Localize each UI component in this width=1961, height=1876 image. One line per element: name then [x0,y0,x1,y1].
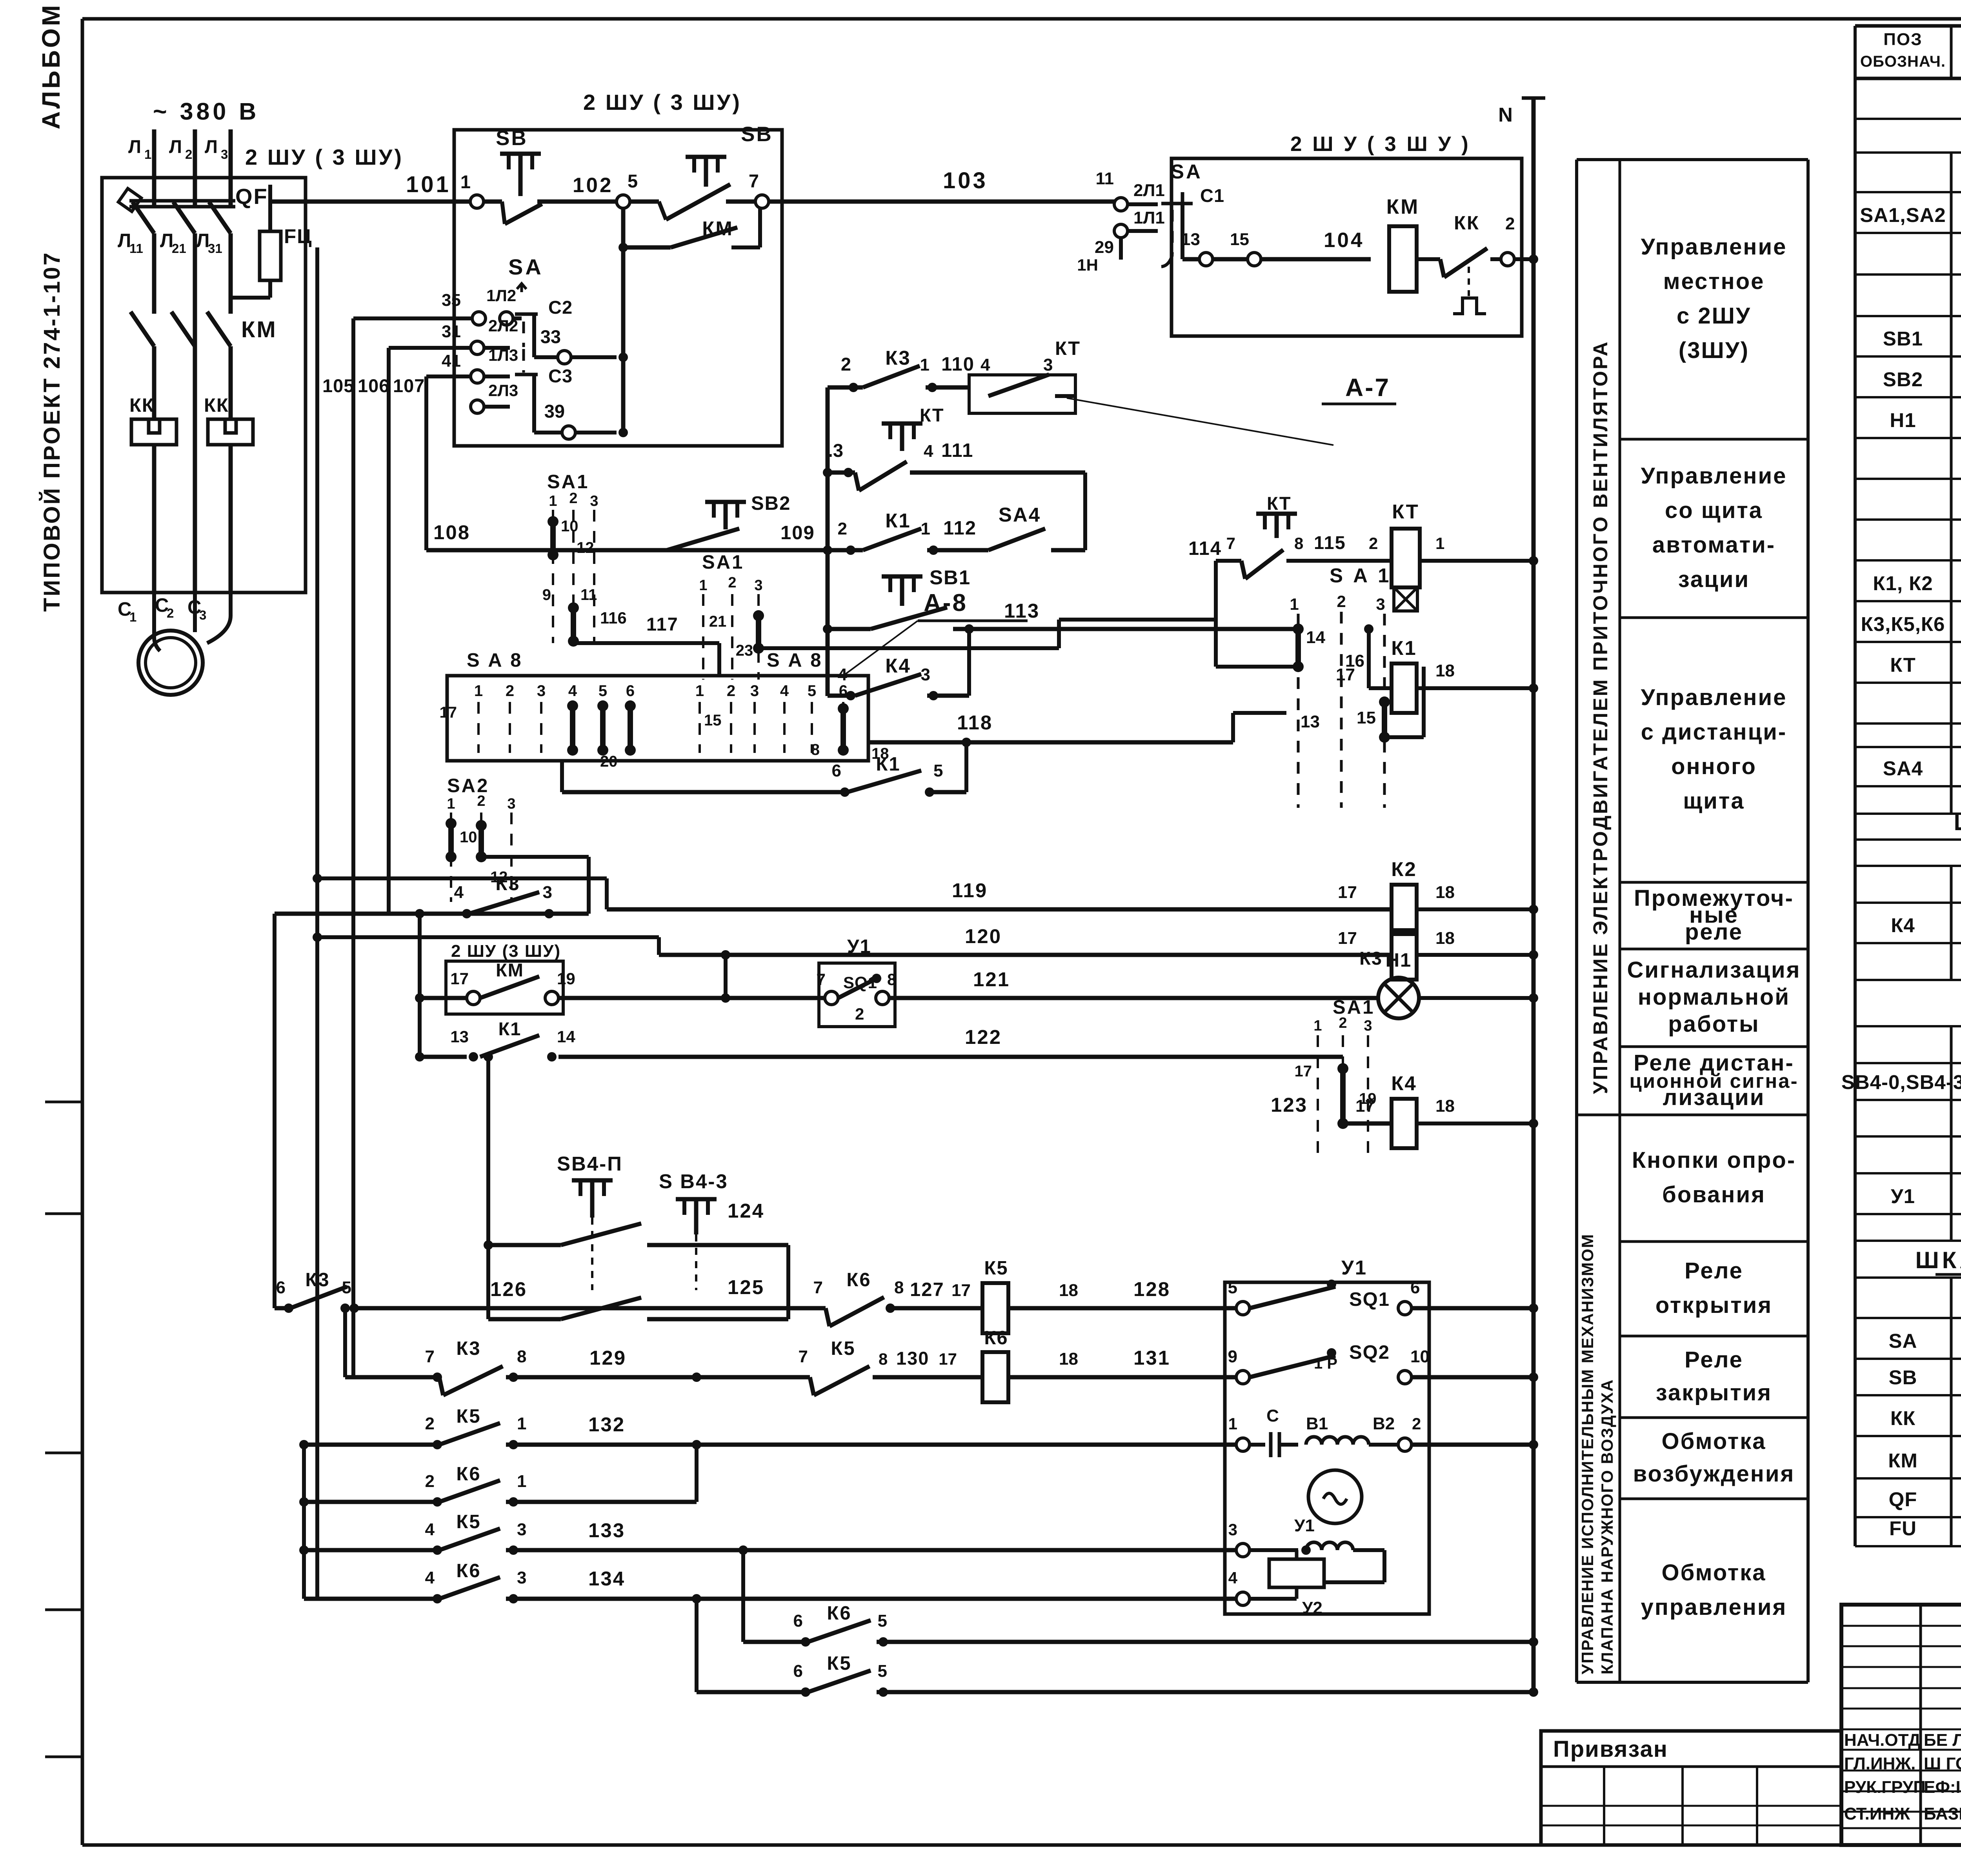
svg-text:2: 2 [1412,1414,1421,1433]
rung 129 130 131 [345,1338,980,1395]
contact K1 aux rung [562,742,966,797]
svg-text:Н1: Н1 [1890,409,1916,431]
svg-text:SB: SB [1889,1366,1917,1389]
svg-text:лизации: лизации [1663,1085,1765,1110]
wire 103 junction vertical [618,208,628,437]
table row KM row [1888,1446,1961,1472]
svg-text:29: 29 [1095,238,1114,257]
svg-text:31: 31 [442,322,461,341]
svg-text:134: 134 [588,1567,625,1590]
wire 103 [769,168,1121,202]
svg-text:121: 121 [973,968,1010,991]
function cell Кнопки опро- [1620,1147,1808,1242]
svg-text:1Н: 1Н [1077,256,1098,274]
svg-text:2Л1: 2Л1 [1133,181,1165,200]
svg-text:К6: К6 [984,1327,1008,1349]
svg-text:5: 5 [1228,1278,1237,1297]
svg-text:1: 1 [1290,595,1299,613]
svg-text:~ 380 В: ~ 380 В [153,98,259,125]
svg-text:А-7: А-7 [1345,373,1390,402]
svg-text:1: 1 [921,519,930,538]
svg-text:SА1: SА1 [702,552,744,573]
wire 101 [270,172,477,202]
svg-text:17: 17 [951,1281,971,1300]
svg-text:открытия: открытия [1655,1292,1772,1318]
svg-text:FЦ: FЦ [284,225,312,247]
svg-text:КТ: КТ [920,405,944,425]
svg-text:18: 18 [1059,1281,1078,1300]
svg-text:23: 23 [736,642,753,659]
phase stub L3 [205,129,231,187]
table row SB2 [1883,365,1961,391]
wire 114 jog [1188,538,1298,667]
svg-text:3: 3 [507,796,515,812]
svg-text:1: 1 [699,577,707,594]
switch SA4 [988,504,1085,550]
svg-text:закрытия: закрытия [1656,1380,1772,1405]
svg-text:НАЧ.ОТД: НАЧ.ОТД [1844,1731,1921,1750]
svg-text:У2: У2 [1302,1598,1322,1618]
wire 118 [868,711,1286,747]
svg-text:31: 31 [208,241,222,256]
svg-text:КТ: КТ [1267,493,1292,514]
svg-text:21: 21 [709,613,727,630]
svg-text:13: 13 [450,1027,469,1046]
svg-text:SB2: SB2 [1883,368,1923,391]
reference line A-7 [1067,373,1396,445]
svg-text:с дистанци-: с дистанци- [1641,719,1787,745]
svg-text:Обмотка: Обмотка [1662,1429,1766,1454]
rung 110 contact K3 [828,347,975,392]
svg-text:2 ШУ ( 3 ШУ): 2 ШУ ( 3 ШУ) [245,145,404,169]
svg-text:6: 6 [793,1661,803,1681]
svg-text:К1: К1 [1391,637,1417,659]
svg-text:4: 4 [568,682,577,700]
svg-text:1 Р: 1 Р [1314,1355,1337,1372]
svg-text:местное: местное [1663,269,1765,294]
svg-text:ЩИТ ДИСТАНЦИОННОГО УПРАВЛЕНИЯ.: ЩИТ ДИСТАНЦИОННОГО УПРАВЛЕНИЯ. [1954,809,1961,835]
svg-text:SA4: SA4 [1883,757,1923,780]
svg-text:Л: Л [128,136,141,157]
svg-text:17: 17 [939,1350,957,1368]
svg-text:1: 1 [695,682,704,700]
contact K1 on 112 [828,509,988,555]
svg-text:Л: Л [205,136,218,157]
svg-text:33: 33 [540,326,561,347]
svg-text:127: 127 [910,1279,944,1300]
svg-text:1: 1 [1228,1414,1237,1433]
neutral bus N [1498,98,1545,1692]
rung 108 109 112 [426,493,828,550]
svg-text:5: 5 [878,1661,887,1681]
selector SA in box2 [1161,160,1224,267]
phase labels L11 L21 L31 [118,230,222,256]
table header text [1860,30,1961,70]
svg-text:КМ: КМ [496,960,524,980]
svg-text:3: 3 [921,665,930,684]
svg-text:FU: FU [1889,1517,1917,1540]
privyazan box [1541,1731,1841,1845]
svg-text:3: 3 [754,577,762,594]
table row SA4 [1883,754,1961,780]
svg-text:35: 35 [442,291,461,310]
rotated strip text lower [1578,1233,1616,1674]
svg-text:К5: К5 [456,1511,481,1532]
svg-text:109: 109 [780,522,815,544]
svg-text:1: 1 [549,493,557,509]
svg-text:4: 4 [425,1568,435,1587]
table row H1 [1890,406,1961,432]
svg-text:К6: К6 [456,1463,481,1485]
selector SA1 left block [542,471,627,647]
svg-text:2: 2 [425,1472,435,1491]
svg-text:15: 15 [1230,230,1249,249]
svg-text:1: 1 [474,682,483,700]
svg-text:SВ2: SВ2 [751,493,791,514]
svg-text:2: 2 [838,519,847,538]
svg-text:щита: щита [1683,788,1745,814]
svg-text:122: 122 [965,1026,1002,1048]
table row FU row [1889,1514,1961,1540]
svg-text:7: 7 [425,1347,435,1366]
svg-text:Управление: Управление [1641,234,1787,260]
svg-text:1Л3: 1Л3 [488,346,518,364]
svg-text:К1: К1 [876,754,900,775]
svg-text:SВ1: SВ1 [930,566,971,589]
svg-text:с 2ШУ: с 2ШУ [1677,303,1751,329]
reference box A7 with KT contact [969,338,1081,413]
rung 134 K6 contact [304,1560,1243,1603]
function cell Управление [1620,234,1808,439]
svg-text:2: 2 [1505,214,1515,233]
svg-text:S А 8: S А 8 [767,650,823,671]
relay coil K1 [1336,624,1538,713]
table row SB40SB43 [1841,1069,1961,1094]
wire SA2 to rung [481,857,589,914]
function cell Сигнализация [1620,957,1808,1047]
contact K1 13 14 wire 122 [420,1018,1343,1062]
svg-text:4: 4 [425,1520,435,1539]
svg-text:реле: реле [1685,919,1743,945]
svg-text:3: 3 [537,682,546,700]
table row K1K2 [1873,569,1961,595]
svg-text:К2: К2 [1391,858,1417,880]
SA row 2L3 [471,381,518,413]
actuator motor symbol [1308,1470,1362,1523]
svg-text:6: 6 [832,761,841,780]
svg-text:106: 106 [358,375,389,396]
svg-text:3: 3 [517,1568,526,1587]
svg-text:2: 2 [1339,1015,1347,1031]
svg-text:117: 117 [646,614,679,634]
svg-text:17: 17 [1338,929,1357,948]
svg-text:18: 18 [1435,929,1455,948]
svg-text:СТ.ИНЖ: СТ.ИНЖ [1844,1804,1910,1823]
svg-text:11: 11 [580,586,597,604]
svg-text:К3: К3 [456,1338,481,1359]
SA row 1L3 C3 [426,346,617,439]
svg-text:3: 3 [1228,1520,1237,1539]
contact K4 parallel [828,624,974,700]
svg-text:18: 18 [1059,1349,1078,1369]
svg-text:5: 5 [628,171,638,191]
svg-text:124: 124 [728,1200,764,1222]
svg-text:2 ШУ (3 ШУ): 2 ШУ (3 ШУ) [451,942,561,961]
svg-text:ОБОЗНАЧ.: ОБОЗНАЧ. [1860,53,1946,70]
svg-text:SА1: SА1 [547,471,589,493]
button SB start [460,127,617,224]
svg-text:12: 12 [577,539,594,556]
svg-text:115: 115 [1314,532,1346,553]
buttons SB4 rungs 124 125 [484,1052,788,1319]
contactor coil KM [1386,195,1440,292]
table row K4 [1891,911,1961,937]
svg-text:КТ: КТ [1055,338,1081,359]
svg-text:SA: SA [1889,1330,1917,1352]
svg-text:К4: К4 [885,654,911,677]
table row U1 [1891,1183,1961,1208]
svg-text:2: 2 [727,682,735,700]
svg-text:К5: К5 [456,1406,481,1427]
svg-text:108: 108 [433,521,470,544]
svg-text:зации: зации [1678,567,1750,592]
svg-text:В1: В1 [1306,1414,1328,1433]
svg-text:К6: К6 [846,1269,871,1291]
svg-text:К6: К6 [456,1560,481,1582]
svg-text:SА: SА [1171,160,1202,183]
svg-text:102: 102 [573,174,613,197]
svg-text:3: 3 [221,147,228,162]
svg-text:К1: К1 [498,1018,522,1039]
svg-text:нормальной: нормальной [1638,984,1790,1010]
svg-text:9: 9 [1228,1347,1237,1366]
svg-text:КМ: КМ [241,317,277,342]
svg-text:104: 104 [1324,229,1364,252]
svg-text:18: 18 [1435,1096,1455,1116]
SA row 2L2 [389,316,518,354]
svg-text:8: 8 [811,741,820,758]
svg-text:8: 8 [879,1350,888,1368]
feeder 126 vertical [273,914,277,1308]
svg-text:15: 15 [704,712,722,729]
svg-text:17: 17 [1355,1096,1375,1116]
svg-text:8: 8 [887,970,896,989]
svg-text:128: 128 [1133,1278,1170,1300]
svg-text:2: 2 [185,147,192,162]
svg-text:А-8: А-8 [924,589,968,616]
svg-text:2: 2 [728,574,736,591]
terminal 2 to N [1501,253,1538,266]
svg-text:КК: КК [204,395,229,416]
svg-text:КМ: КМ [1386,195,1420,218]
svg-text:К5: К5 [831,1338,855,1359]
svg-text:113: 113 [1004,600,1040,622]
wire 104 [1181,229,1371,266]
svg-text:У1: У1 [1341,1256,1367,1279]
selector SA rows in box1 [508,254,544,279]
thermal elements KK [129,314,253,593]
svg-text:работы: работы [1668,1011,1759,1037]
feeder verticals 105 106 107 [317,247,426,1599]
svg-text:7: 7 [817,970,826,989]
svg-text:4: 4 [780,682,789,700]
table section title shchit distancionnogo upravleniya [1954,809,1961,836]
rung K5 6 5 bottom [697,1599,1538,1697]
svg-text:2: 2 [425,1414,435,1433]
svg-text:SВ4-0,SВ4-3: SВ4-0,SВ4-3 [1841,1071,1961,1093]
svg-text:11: 11 [1095,169,1114,188]
time relay coil KT [1392,500,1538,611]
relay coil K2 [1391,858,1538,934]
svg-text:С: С [1266,1406,1279,1425]
table row KT [1890,651,1961,677]
svg-text:КТ: КТ [1392,500,1419,523]
svg-text:7: 7 [1226,534,1235,553]
rung 126 127 128 [275,1269,980,1377]
power box [102,178,306,593]
svg-text:10: 10 [561,518,578,535]
wire 117 [573,614,719,676]
svg-text:со щита: со щита [1665,498,1763,523]
svg-text:2 ШУ ( 3 ШУ): 2 ШУ ( 3 ШУ) [583,90,742,115]
svg-text:К4: К4 [1391,1072,1417,1094]
svg-text:1: 1 [447,796,455,812]
svg-text:6: 6 [839,682,848,700]
svg-text:Л: Л [169,136,182,157]
function cell Управление [1620,685,1808,882]
phase stub L2 [169,129,195,187]
svg-text:133: 133 [588,1519,625,1542]
svg-text:7: 7 [749,171,759,191]
svg-text:118: 118 [957,711,993,734]
svg-text:ШКАФ УПРАВЛЕНИЯ (ШУ): ШКАФ УПРАВЛЕНИЯ (ШУ) [1916,1247,1961,1273]
svg-text:QF: QF [1889,1488,1917,1511]
wire QF to FU junction [154,233,270,314]
svg-text:В2: В2 [1373,1414,1395,1433]
svg-text:(3ШУ): (3ШУ) [1679,338,1749,363]
phase stub L1 [128,129,154,187]
function cell Управление [1620,463,1808,618]
svg-text:125: 125 [728,1276,764,1298]
svg-text:К5: К5 [827,1653,851,1674]
box KM aux 2shu [446,942,563,1014]
svg-text:Сигнализация: Сигнализация [1627,957,1801,983]
rung K6 6 5 bottom [743,1550,1538,1647]
svg-text:3: 3 [750,682,759,700]
left bus vertical 1070 [415,909,424,1062]
svg-text:SA1,SA2: SA1,SA2 [1860,204,1946,226]
svg-text:КМ: КМ [1888,1449,1918,1472]
svg-text:SQ1: SQ1 [1349,1289,1390,1310]
svg-text:4: 4 [924,442,933,461]
contact KM aux 17 19 [420,950,825,1005]
svg-text:4: 4 [980,355,990,374]
svg-text:SВ4-П: SВ4-П [557,1153,623,1175]
rung 123 to K4 [1271,1094,1392,1123]
svg-text:К3,К5,К6: К3,К5,К6 [1861,613,1945,635]
limit switch SQ1 [1228,1278,1538,1315]
button SB stop [617,123,773,220]
svg-text:116: 116 [600,609,627,627]
reference line A-8 [843,589,1028,676]
svg-text:КК: КК [129,395,155,416]
svg-text:13: 13 [1181,230,1200,249]
svg-text:управления: управления [1641,1594,1787,1620]
svg-text:К3: К3 [1359,948,1383,969]
table row K3K5K6 [1861,610,1961,636]
power supply label 380V [153,98,259,125]
svg-text:К1: К1 [885,509,911,532]
svg-text:КМ: КМ [702,217,733,240]
svg-text:19: 19 [557,969,575,988]
project number vertical text [39,251,65,612]
svg-text:КТ: КТ [1890,654,1916,676]
svg-text:2: 2 [855,1005,864,1023]
svg-text:ЕФ:IМОВА: ЕФ:IМОВА [1924,1778,1961,1797]
SA row C2 [353,284,617,364]
svg-text:112: 112 [943,518,977,539]
svg-text:7: 7 [799,1347,808,1366]
svg-text:С3: С3 [548,365,573,386]
svg-text:К1, К2: К1, К2 [1873,572,1933,594]
table section title shkaf upravleniya [1916,1247,1961,1274]
svg-text:39: 39 [544,401,565,422]
svg-text:бования: бования [1662,1182,1766,1207]
svg-text:2: 2 [569,490,577,507]
svg-text:У1: У1 [847,936,871,957]
motor M [138,593,231,695]
selector SA1 right block [1290,564,1391,808]
svg-text:1: 1 [920,355,930,374]
svg-text:Кнопки опро-: Кнопки опро- [1632,1147,1796,1173]
svg-text:2: 2 [841,354,851,374]
node 11 2L1 [1095,169,1164,211]
svg-text:1: 1 [144,147,151,162]
svg-text:Реле: Реле [1684,1258,1743,1283]
node 29 1L1 [1077,208,1165,274]
svg-text:2 Ш У ( 3 Ш У ): 2 Ш У ( 3 Ш У ) [1290,133,1471,156]
svg-text:Н1: Н1 [1386,950,1412,971]
table row SA [1889,1327,1961,1353]
svg-text:КЛАПАНА НАРУЖНОГО ВОЗДУХА: КЛАПАНА НАРУЖНОГО ВОЗДУХА [1598,1379,1616,1674]
signal lamp H1 [1378,950,1538,1018]
svg-text:1Л2: 1Л2 [486,286,516,305]
svg-text:У1: У1 [1294,1516,1315,1535]
svg-text:S А 8: S А 8 [467,650,523,671]
svg-text:К4: К4 [1891,914,1915,936]
relay coil K4 [1391,1072,1538,1148]
svg-text:С2: С2 [548,297,573,318]
svg-text:114: 114 [1188,538,1222,559]
svg-text:ГЛ.ИНЖ.: ГЛ.ИНЖ. [1844,1754,1916,1773]
svg-text:4: 4 [1228,1569,1238,1587]
title block signature names [1844,1731,1961,1823]
svg-text:120: 120 [965,925,1002,947]
wire 119 [313,874,1392,909]
svg-text:SА4: SА4 [999,504,1041,526]
svg-text:С1: С1 [1200,185,1224,206]
selector SA1 block 4 [1295,997,1377,1161]
svg-text:2: 2 [1369,534,1378,553]
svg-text:3: 3 [517,1520,526,1539]
selector SA1 mid block [699,552,1216,680]
svg-text:3: 3 [1043,355,1053,374]
svg-text:8: 8 [517,1347,526,1366]
svg-text:2Л3: 2Л3 [488,381,518,400]
svg-text:17: 17 [1336,665,1355,684]
function column box [1577,160,1808,1682]
function cell Обмотка [1641,1560,1787,1620]
